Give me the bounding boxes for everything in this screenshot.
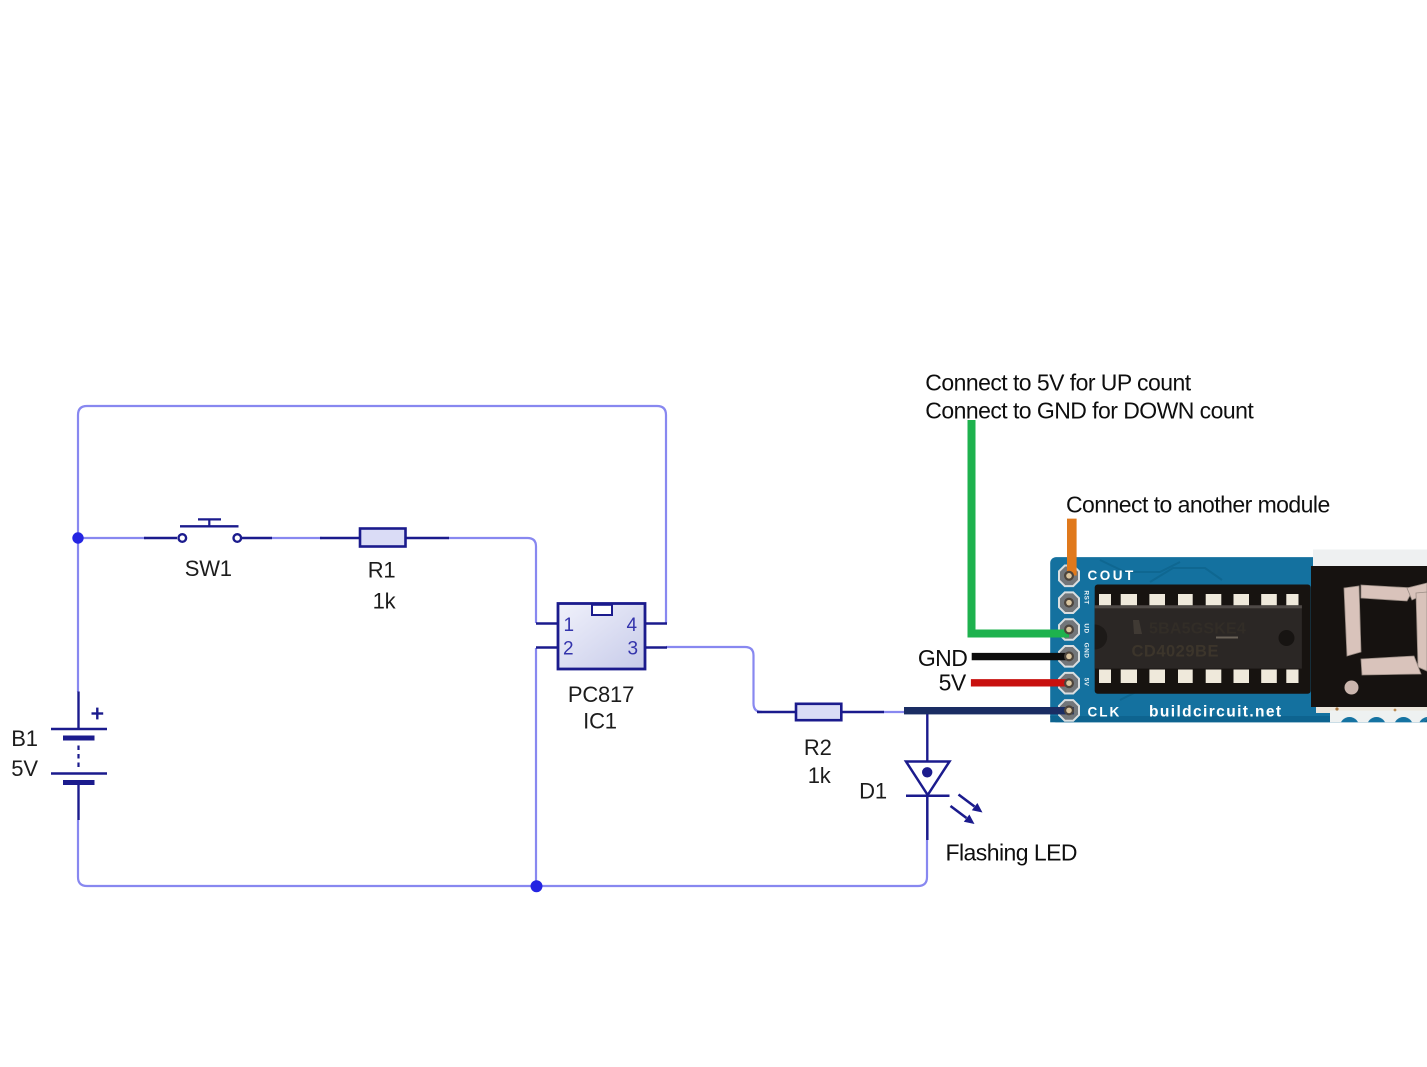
svg-text:4: 4	[627, 615, 638, 636]
svg-text:1: 1	[564, 615, 575, 636]
svg-text:R2: R2	[804, 735, 832, 760]
svg-text:B1: B1	[11, 726, 38, 751]
svg-text:buildcircuit.net: buildcircuit.net	[1149, 704, 1283, 721]
svg-text:5V: 5V	[1083, 678, 1090, 687]
svg-text:D1: D1	[859, 779, 887, 804]
svg-text:2: 2	[563, 639, 574, 660]
svg-text:GND: GND	[918, 645, 967, 671]
svg-text:Flashing LED: Flashing LED	[946, 840, 1077, 866]
svg-text:Connect to GND for DOWN count: Connect to GND for DOWN count	[925, 397, 1254, 423]
svg-text:R1: R1	[368, 557, 396, 582]
svg-text:PC817: PC817	[568, 682, 634, 707]
svg-text:COUT: COUT	[1088, 568, 1136, 583]
svg-text:3: 3	[628, 639, 639, 660]
svg-text:5BA5GSKE4: 5BA5GSKE4	[1149, 621, 1246, 638]
svg-text:Connect to another module: Connect to another module	[1066, 492, 1330, 518]
svg-text:5V: 5V	[939, 669, 967, 695]
svg-text:1k: 1k	[808, 763, 832, 788]
svg-text:CD4029BE: CD4029BE	[1132, 643, 1219, 661]
svg-text:IC1: IC1	[583, 709, 617, 734]
svg-text:GND: GND	[1083, 643, 1090, 659]
svg-text:SW1: SW1	[185, 556, 232, 581]
svg-text:1k: 1k	[373, 588, 397, 613]
svg-text:5V: 5V	[11, 756, 38, 781]
svg-text:Connect to 5V for UP count: Connect to 5V for UP count	[925, 369, 1191, 395]
svg-text:RST: RST	[1083, 590, 1090, 604]
svg-text:CLK: CLK	[1088, 705, 1122, 720]
svg-text:UD: UD	[1083, 623, 1090, 633]
